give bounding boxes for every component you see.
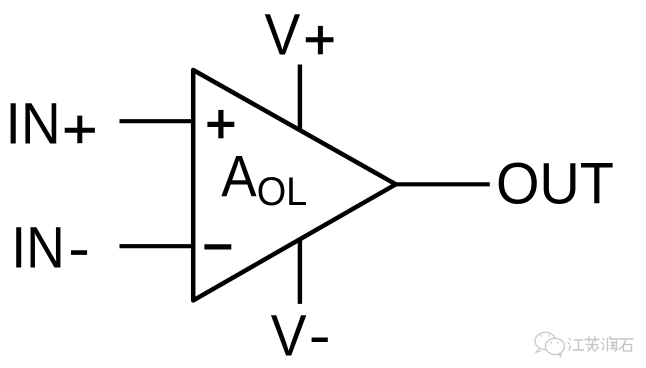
svg-text:V: V <box>265 2 301 67</box>
svg-text:IN: IN <box>6 92 61 157</box>
watermark logo (WeChat bubbles) <box>535 332 564 356</box>
watermark text 江苏润石 (drawn strokes) <box>568 337 633 352</box>
石 <box>619 339 634 350</box>
苏 <box>585 337 599 342</box>
wire V+ supply <box>298 65 302 131</box>
wire IN+ input <box>120 119 194 123</box>
wire OUT output <box>394 182 490 186</box>
gain label A_OL <box>221 145 307 215</box>
svg-text:IN: IN <box>11 216 65 281</box>
label IN+ <box>6 92 95 157</box>
svg-text:OUT: OUT <box>496 152 614 217</box>
江 <box>568 339 571 351</box>
svg-text:OL: OL <box>257 170 308 214</box>
label IN- <box>11 216 87 281</box>
svg-text:A: A <box>221 145 256 210</box>
label V+ <box>265 2 334 67</box>
svg-text:V: V <box>271 304 307 368</box>
润 <box>602 339 605 351</box>
label V- <box>271 304 328 368</box>
wire IN- input <box>120 244 194 248</box>
wire V- supply <box>298 240 302 304</box>
op-amp plus input marking <box>207 110 234 138</box>
op-amp minus input marking <box>204 244 231 249</box>
op-amp U1 triangle body <box>193 70 396 300</box>
